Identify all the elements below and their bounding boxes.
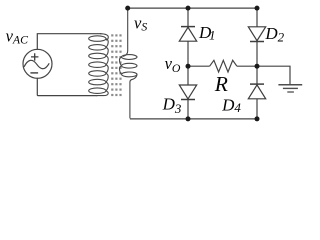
resistor R zigzag bbox=[210, 60, 237, 72]
wire D2 column bbox=[256, 8, 258, 119]
node dot right of R bbox=[255, 64, 260, 69]
diode D2 symbol bbox=[248, 27, 265, 42]
ground symbol bbox=[278, 85, 302, 92]
AC source VAC circle bbox=[23, 49, 52, 78]
node dot bottom of D3 bbox=[186, 116, 191, 121]
diode D3 symbol bbox=[179, 85, 196, 100]
svg-text:vS: vS bbox=[134, 13, 147, 33]
wire top-left loop (vAC top to primary) bbox=[37, 34, 101, 50]
transformer core (dotted) bbox=[111, 34, 121, 96]
AC source plus sign bbox=[31, 53, 38, 60]
wire bottom-left loop (vAC bottom to primary) bbox=[37, 78, 97, 95]
diode D1 symbol bbox=[179, 27, 196, 42]
svg-text:R: R bbox=[214, 72, 228, 96]
node dot top of D1 column bbox=[186, 6, 191, 11]
wire middle rail vO to ground corner bbox=[188, 66, 290, 84]
svg-text:vO: vO bbox=[165, 54, 181, 75]
node dot top of D2 column bbox=[255, 6, 260, 11]
wire D1 column bbox=[187, 8, 189, 119]
node dot vS bbox=[125, 6, 130, 11]
wire bottom rail bbox=[130, 118, 257, 120]
AC source minus sign bbox=[30, 72, 38, 74]
transformer primary winding L1 bbox=[89, 34, 109, 96]
svg-text:D2: D2 bbox=[264, 24, 284, 44]
node dot vO bbox=[186, 64, 191, 69]
wire top rail vS node to D1 D2 bbox=[128, 7, 257, 9]
AC source sine wave bbox=[24, 60, 49, 68]
svg-text:D3: D3 bbox=[162, 95, 182, 116]
node dot bottom of D4 bbox=[255, 116, 260, 121]
diode D4 symbol bbox=[248, 84, 265, 99]
transformer secondary winding L2 bbox=[119, 9, 137, 118]
svg-text:vAC: vAC bbox=[6, 26, 29, 46]
svg-text:D4: D4 bbox=[221, 95, 241, 115]
svg-text:D1: D1 bbox=[198, 23, 215, 43]
